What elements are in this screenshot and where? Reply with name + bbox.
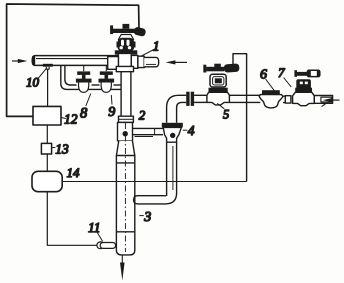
item 7 tee [293, 92, 315, 105]
valve 1 bonnet [118, 35, 133, 40]
enclosure right line [233, 54, 247, 182]
pipe 2 (vertical) [121, 72, 131, 117]
label 4 [183, 129, 188, 131]
pipe valve5 to item 6 [229, 94, 260, 96]
valve 5 body [210, 74, 226, 87]
valve 1 handle bar [113, 29, 135, 33]
right stub pipe [144, 57, 159, 66]
loop lower elbow to casing [134, 193, 177, 204]
valve 8 [83, 65, 85, 71]
svg-text:13: 13 [55, 142, 69, 157]
svg-text:11: 11 [88, 220, 101, 235]
valve 9 [105, 65, 107, 71]
svg-text:4: 4 [188, 123, 195, 138]
collar under cross [116, 66, 133, 71]
item 6 cap [262, 90, 280, 94]
capsule 11 [47, 192, 97, 246]
loop upper elbow to valve 5 [167, 95, 187, 107]
wellhead flange [119, 116, 134, 122]
cross center block [118, 53, 131, 67]
svg-text:10: 10 [26, 75, 40, 90]
svg-text:14: 14 [67, 165, 81, 180]
svg-text:7: 7 [278, 65, 285, 80]
svg-text:2: 2 [139, 108, 146, 123]
svg-text:9: 9 [108, 105, 115, 120]
line box14 to enclosure [62, 181, 246, 183]
svg-text:12: 12 [64, 112, 78, 127]
casing taper [116, 141, 134, 255]
valve 5 flange [209, 88, 228, 93]
box 14 [32, 171, 62, 191]
svg-text:3: 3 [143, 210, 151, 225]
label 12 [61, 118, 66, 119]
cross left flange [108, 57, 119, 70]
trough under pipe [61, 65, 121, 89]
tee 4 flange [162, 123, 183, 128]
tap fitting under pipe (for line 10/12) [43, 64, 53, 67]
label 10 [37, 69, 46, 80]
valve 1 flange [115, 50, 138, 54]
valve 5 handle [214, 64, 221, 68]
svg-text:6: 6 [260, 67, 267, 82]
label 8 [86, 94, 91, 107]
line box13 to box14 [46, 154, 48, 171]
valve 1 knob [133, 26, 146, 36]
item 6 tee body [259, 95, 283, 108]
svg-text:1: 1 [153, 38, 160, 53]
joint between 6 and 7 [283, 96, 285, 102]
item 7 body [296, 79, 311, 89]
label 6 [266, 79, 275, 91]
casing coupling bands [116, 155, 134, 157]
item 7 flange [295, 88, 312, 93]
right end pipe with nipple [314, 96, 332, 104]
svg-text:8: 8 [80, 106, 88, 122]
main horizontal pipe [32, 56, 119, 66]
valve 1 handle left tick [110, 25, 113, 34]
side outlet wellhead to tee 4 [133, 127, 164, 129]
label 1 [140, 49, 156, 57]
casing centerline [124, 123, 126, 252]
impulse line to box 12 [47, 69, 49, 106]
box 12 [33, 106, 61, 125]
master valve block with dot [118, 122, 133, 140]
valve 1 body [118, 38, 135, 52]
flange pair [186, 92, 189, 106]
label 5 [217, 103, 224, 108]
bottom flow arrow [121, 256, 123, 266]
arrow into right stub (pointing left) [175, 61, 187, 63]
svg-text:5: 5 [223, 107, 229, 121]
label 3 [139, 215, 144, 217]
control line border (top-left loop) [7, 4, 139, 116]
box 13 [41, 143, 51, 154]
casing joint [117, 231, 135, 233]
line box12 to box13 [46, 125, 48, 143]
tee 4 body with dot [163, 127, 181, 142]
label 13 [52, 146, 56, 148]
valve 1 assembly: stem block [123, 24, 130, 29]
label 9 [110, 95, 113, 105]
label 11 [97, 232, 103, 242]
arrow into pipe (left) [12, 60, 19, 62]
item 7 handle [294, 70, 297, 77]
arrow into right pipe (pointing left) [331, 99, 340, 101]
pipe to valve 5 [194, 94, 207, 96]
label 7 [284, 78, 292, 88]
loop pipe down from tee 4 [166, 142, 168, 196]
valve 5 tee [207, 92, 230, 105]
cross right flange blocks [131, 55, 138, 68]
